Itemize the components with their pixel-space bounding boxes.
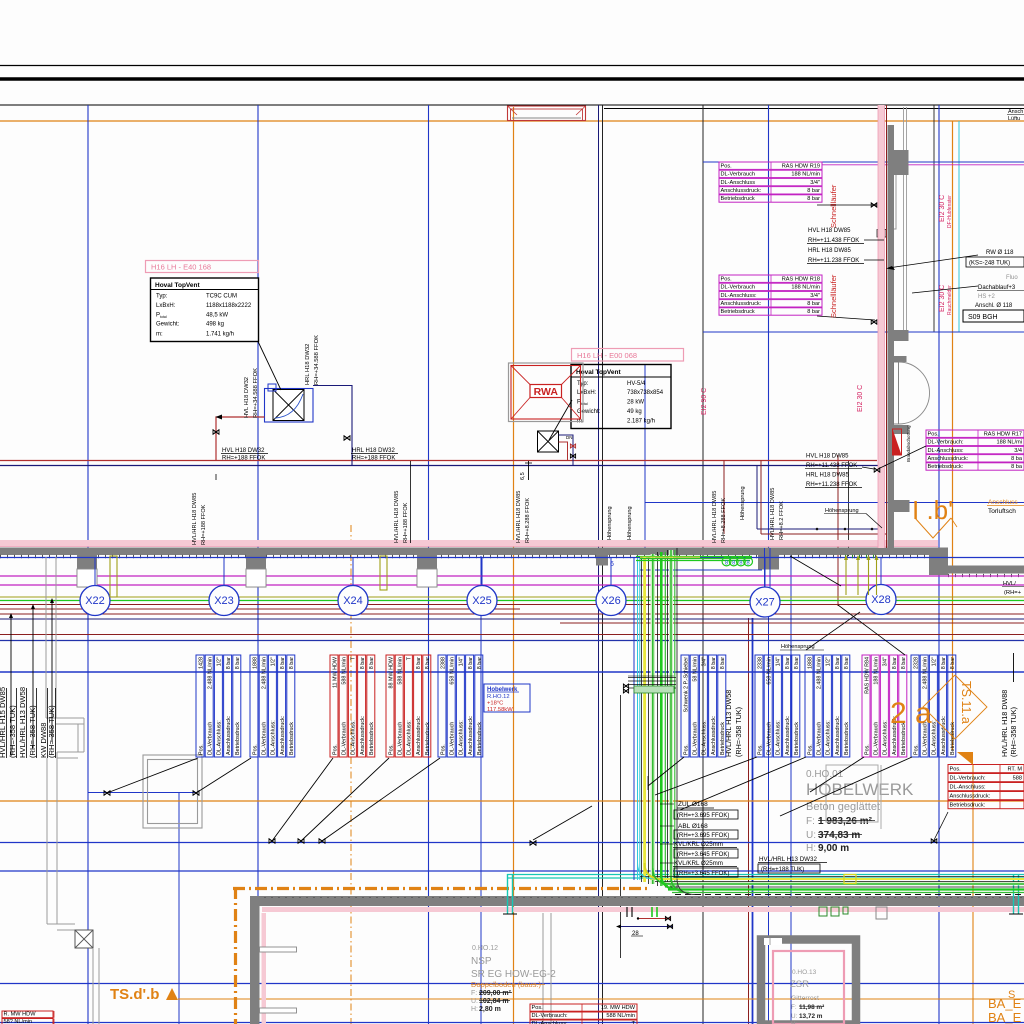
svg-text:Ansch: Ansch — [1008, 109, 1023, 115]
svg-text:8 bar: 8 bar — [226, 657, 232, 669]
svg-text:0.HO.12: 0.HO.12 — [472, 945, 498, 952]
svg-text:R. MW HDW: R. MW HDW — [4, 1012, 37, 1018]
svg-text:DL-Anschluss:: DL-Anschluss: — [950, 785, 987, 791]
svg-text:Höhensprung: Höhensprung — [781, 644, 815, 650]
svg-text:8 ba: 8 ba — [1011, 464, 1023, 470]
svg-text:+18°C: +18°C — [487, 701, 503, 707]
svg-text:DL-Verbrauch: DL-Verbrauch — [208, 722, 214, 755]
svg-text:R.HO.12: R.HO.12 — [487, 694, 510, 700]
svg-text:F:: F: — [806, 816, 815, 827]
svg-text:Höhensprung: Höhensprung — [740, 486, 746, 520]
svg-text:188 NL/min: 188 NL/min — [874, 657, 880, 685]
svg-text:NSP: NSP — [471, 956, 492, 967]
svg-text:RH=+11.238 FFOK: RH=+11.238 FFOK — [808, 258, 859, 264]
svg-text:58? NL/min: 58? NL/min — [4, 1019, 33, 1024]
svg-text:(RH=+3.695 FFOK): (RH=+3.695 FFOK) — [677, 813, 729, 819]
svg-text:188 NL/mi: 188 NL/mi — [997, 440, 1023, 446]
svg-text:HRL H18 DW85: HRL H18 DW85 — [808, 248, 851, 254]
svg-text:HVL/HRL H18 DW85: HVL/HRL H18 DW85 — [394, 491, 400, 543]
svg-text:88 MW HDW: 88 MW HDW — [388, 656, 394, 688]
svg-text:11,98 m²: 11,98 m² — [799, 1004, 824, 1011]
svg-text:HS +2: HS +2 — [978, 294, 996, 300]
svg-text:2338: 2338 — [757, 657, 763, 669]
svg-text:RH=+11.238 FFOK: RH=+11.238 FFOK — [806, 482, 857, 488]
svg-text:RH=+188 FFOK: RH=+188 FFOK — [222, 456, 265, 462]
svg-text:58 NL/min: 58 NL/min — [693, 657, 699, 682]
svg-text:RH=+34.588 FFOK: RH=+34.588 FFOK — [253, 368, 259, 418]
svg-text:1428: 1428 — [198, 657, 204, 669]
svg-text:Hoval TopVent: Hoval TopVent — [155, 282, 200, 289]
svg-text:HVL/HRL H18 DW85: HVL/HRL H18 DW85 — [712, 491, 718, 543]
svg-text:Betriebsdruck: Betriebsdruck — [721, 309, 755, 315]
svg-text:13,72 m: 13,72 m — [799, 1013, 823, 1020]
svg-text:EI2 90 C: EI2 90 C — [701, 388, 708, 415]
svg-text:BA_E: BA_E — [988, 1010, 1022, 1024]
svg-text:HRL H18 DW85: HRL H18 DW85 — [806, 473, 849, 479]
svg-text:9,00 m: 9,00 m — [818, 843, 849, 854]
svg-text:TS.11.a: TS.11.a — [959, 681, 973, 724]
svg-text:Pos.: Pos. — [252, 744, 258, 755]
svg-text:188 NL/min: 188 NL/min — [791, 285, 820, 291]
svg-text:8 ba: 8 ba — [1011, 456, 1023, 462]
svg-text:588 NL/min: 588 NL/min — [398, 657, 404, 685]
svg-text:Betriebsdruck: Betriebsdruck — [844, 722, 850, 755]
svg-text:S09 BGH: S09 BGH — [968, 314, 998, 321]
svg-text:Beton geglättet: Beton geglättet — [806, 801, 880, 813]
svg-text:0.HO.01: 0.HO.01 — [806, 769, 844, 780]
svg-text:Pos.: Pos. — [721, 163, 733, 169]
svg-text:RWA: RWA — [534, 386, 559, 398]
svg-text:HVL/HRL H13 DW32: HVL/HRL H13 DW32 — [759, 856, 817, 863]
svg-text:LxBxH:: LxBxH: — [156, 303, 176, 309]
svg-text:TC9C CUM: TC9C CUM — [206, 294, 237, 300]
svg-text:DL-Verbrauch: DL-Verbrauch — [342, 722, 348, 755]
svg-text:I .b': I .b' — [912, 495, 953, 525]
svg-text:Anschlussdruck:: Anschlussdruck: — [785, 716, 791, 755]
svg-text:DL-Verbrauch:: DL-Verbrauch: — [532, 1013, 569, 1019]
svg-text:Anschlussdruck:: Anschlussdruck: — [226, 716, 232, 755]
svg-text:2328: 2328 — [913, 657, 919, 669]
svg-text:ABL Ø168: ABL Ø168 — [678, 823, 708, 830]
svg-text:Pos.: Pos. — [864, 744, 870, 755]
svg-text:DF-Hubfenster: DF-Hubfenster — [947, 195, 953, 228]
svg-text:8 bar: 8 bar — [711, 657, 717, 669]
svg-text:658 NL/min: 658 NL/min — [450, 657, 456, 685]
svg-text:KVL/KRL Ø25mm: KVL/KRL Ø25mm — [674, 860, 723, 867]
svg-text:8 bar: 8 bar — [280, 657, 286, 669]
svg-text:Anschlussdruck:: Anschlussdruck: — [721, 301, 762, 307]
svg-text:(RH=-358 TUK): (RH=-358 TUK) — [47, 705, 56, 758]
svg-text:19. MW HDW: 19. MW HDW — [601, 1005, 636, 1011]
svg-text:Anschl. Ø 118: Anschl. Ø 118 — [975, 303, 1013, 309]
svg-text:2,80 m: 2,80 m — [479, 1006, 501, 1013]
svg-text:Betriebsdruck: Betriebsdruck — [369, 722, 375, 755]
svg-text:DL-Anschluss:: DL-Anschluss: — [407, 720, 413, 755]
svg-text:Anschlussdruck:: Anschlussdruck: — [950, 794, 991, 800]
svg-text:Betriebsdruck: Betriebsdruck — [721, 196, 755, 202]
svg-text:S: S — [1008, 989, 1015, 1001]
svg-text:8 bar: 8 bar — [835, 657, 841, 669]
svg-text:U:: U: — [806, 830, 816, 841]
svg-text:658 NL/min: 658 NL/min — [767, 657, 773, 685]
svg-text:(RH=+3.645 FFOK): (RH=+3.645 FFOK) — [677, 852, 729, 858]
svg-text:X27: X27 — [755, 597, 775, 609]
svg-text:2388: 2388 — [440, 657, 446, 669]
svg-text:2.488 NL/min: 2.488 NL/min — [262, 657, 268, 689]
svg-text:(RH=+188 TUK): (RH=+188 TUK) — [761, 867, 804, 873]
svg-text:HRL H18 DW32: HRL H18 DW32 — [305, 344, 311, 385]
svg-text:KVL/KRL Ø25mm: KVL/KRL Ø25mm — [674, 841, 723, 848]
svg-text:(RH=+: (RH=+ — [1004, 590, 1022, 596]
svg-text:8 bar: 8 bar — [720, 657, 726, 669]
svg-text:DL-Verbrauch: DL-Verbrauch — [817, 722, 823, 755]
svg-text:RH=+34.588 FFOK: RH=+34.588 FFOK — [314, 335, 320, 385]
svg-text:Lüftu: Lüftu — [1008, 116, 1020, 122]
svg-text:X23: X23 — [214, 595, 234, 607]
svg-text:8 bar: 8 bar — [289, 657, 295, 669]
svg-text:RW Ø 118: RW Ø 118 — [986, 250, 1014, 256]
svg-text:X24: X24 — [343, 595, 363, 607]
svg-text:DL-Anschluss:: DL-Anschluss: — [351, 720, 357, 755]
svg-text:588 NL/min: 588 NL/min — [606, 1013, 635, 1019]
svg-text:HVL/HRL H13 DW58: HVL/HRL H13 DW58 — [18, 687, 27, 758]
svg-text:HVL/HRL H18 DW88: HVL/HRL H18 DW88 — [1000, 690, 1009, 757]
svg-text:Pos.: Pos. — [532, 1005, 544, 1011]
svg-text:8 bar: 8 bar — [360, 657, 366, 669]
svg-text:RAS HDW R18: RAS HDW R18 — [782, 276, 820, 282]
svg-text:HV-5/4: HV-5/4 — [627, 381, 646, 387]
svg-text:Schwenk 2 P.-Schieber: Schwenk 2 P.-Schieber — [683, 657, 689, 713]
svg-text:Pos.: Pos. — [683, 744, 689, 755]
svg-text:H16 LH - E00 068: H16 LH - E00 068 — [577, 351, 637, 360]
svg-text:3/4: 3/4 — [1014, 448, 1022, 454]
svg-text:6: 6 — [610, 561, 614, 568]
svg-text:28 kW: 28 kW — [627, 400, 644, 406]
svg-text:DL-Verbrauch:: DL-Verbrauch: — [928, 440, 965, 446]
svg-text:1888: 1888 — [807, 657, 813, 669]
svg-text:DL-Anschluss:: DL-Anschluss: — [459, 720, 465, 755]
svg-text:Anschlussdruck:: Anschlussdruck: — [360, 716, 366, 755]
svg-text:HVL/HRL H18 DW85: HVL/HRL H18 DW85 — [192, 493, 198, 545]
svg-text:Anschlussdruck:: Anschlussdruck: — [941, 716, 947, 755]
svg-text:8 bar: 8 bar — [941, 657, 947, 669]
svg-text:DL-Anschluss:: DL-Anschluss: — [217, 720, 223, 755]
svg-text:Höhensprung: Höhensprung — [825, 508, 859, 514]
svg-text:(RH=+3.695 FFOK): (RH=+3.695 FFOK) — [677, 833, 729, 839]
svg-text:Schnellläufer: Schnellläufer — [829, 274, 838, 318]
svg-text:DL-Verbrauch: DL-Verbrauch — [721, 285, 756, 291]
svg-text:HVL H18 DW85: HVL H18 DW85 — [806, 454, 849, 460]
svg-text:8 bar: 8 bar — [807, 196, 820, 202]
svg-text:Betriebsdruck:: Betriebsdruck: — [928, 464, 964, 470]
svg-text:RH=+188 FFOK: RH=+188 FFOK — [403, 502, 409, 543]
svg-text:Pos.: Pos. — [440, 744, 446, 755]
svg-text:(RH=-358 TUK): (RH=-358 TUK) — [28, 705, 37, 758]
svg-text:TS.d'.b: TS.d'.b — [110, 986, 159, 1003]
svg-text:Pos.: Pos. — [757, 744, 763, 755]
svg-text:1888: 1888 — [252, 657, 258, 669]
svg-text:(RH=-358 TUK): (RH=-358 TUK) — [1009, 707, 1018, 757]
svg-text:8 bar: 8 bar — [425, 657, 431, 669]
svg-text:Pos.: Pos. — [950, 767, 962, 773]
svg-text:total: total — [160, 315, 167, 319]
svg-text:6,5: 6,5 — [520, 472, 526, 480]
svg-text:(RH=-358 TUK): (RH=-358 TUK) — [8, 705, 17, 758]
svg-text:X28: X28 — [871, 594, 891, 606]
svg-text:Fluo: Fluo — [1006, 275, 1018, 281]
svg-text:DL-Verbrauch:: DL-Verbrauch: — [950, 776, 987, 782]
svg-text:DL-Anschluss:: DL-Anschluss: — [776, 720, 782, 755]
svg-text:DL-Verbrauch: DL-Verbrauch — [874, 722, 880, 755]
svg-text:498 kg: 498 kg — [206, 322, 224, 328]
svg-text:RH=+8.2 FFOK: RH=+8.2 FFOK — [779, 501, 785, 540]
svg-text:8 bar: 8 bar — [477, 657, 483, 669]
svg-text:2 a: 2 a — [890, 697, 932, 730]
svg-text:2.488 NL/min: 2.488 NL/min — [208, 657, 214, 689]
svg-text:588: 588 — [1013, 776, 1022, 782]
svg-text:DL-Verbrauch: DL-Verbrauch — [262, 722, 268, 755]
svg-text:DL-Verbrauch: DL-Verbrauch — [450, 722, 456, 755]
svg-text:HVL/HRL H18 DW85: HVL/HRL H18 DW85 — [516, 491, 522, 543]
svg-text:F:: F: — [791, 1004, 797, 1011]
svg-text:Gewicht:: Gewicht: — [156, 322, 180, 328]
svg-text:8 bar: 8 bar — [468, 657, 474, 669]
svg-text:3/4": 3/4" — [810, 180, 820, 186]
svg-text:RAS HDW R17: RAS HDW R17 — [984, 431, 1022, 437]
svg-text:8 bar: 8 bar — [901, 657, 907, 669]
svg-text:DN: DN — [566, 435, 573, 440]
svg-text:Anschlussdruck:: Anschlussdruck: — [835, 716, 841, 755]
svg-text:HRL H18 DW32: HRL H18 DW32 — [352, 448, 395, 454]
svg-text:H:: H: — [471, 1006, 478, 1013]
svg-text:Pos.: Pos. — [198, 744, 204, 755]
svg-text:2.488 NL/min: 2.488 NL/min — [923, 657, 929, 689]
svg-text:8 bar: 8 bar — [794, 657, 800, 669]
svg-text:8 bar: 8 bar — [369, 657, 375, 669]
svg-text:1/4": 1/4" — [459, 657, 465, 666]
svg-text:Betriebsdruck: Betriebsdruck — [477, 722, 483, 755]
svg-text:RAS HDW R84: RAS HDW R84 — [864, 657, 870, 694]
svg-text:HVL H18 DW32: HVL H18 DW32 — [244, 377, 250, 418]
svg-text:HVL/: HVL/ — [1003, 581, 1016, 587]
svg-text:Betriebsdruck: Betriebsdruck — [235, 722, 241, 755]
svg-text:DL-Anschluss:: DL-Anschluss: — [883, 720, 889, 755]
svg-text:2.187 kg/h: 2.187 kg/h — [627, 419, 655, 425]
svg-text:X22: X22 — [85, 595, 105, 607]
svg-text:8 bar: 8 bar — [950, 657, 956, 669]
svg-text:RH=+188 FFOK: RH=+188 FFOK — [201, 504, 207, 545]
svg-text:8 bar: 8 bar — [807, 301, 820, 307]
svg-text:(RH=-358 TUK): (RH=-358 TUK) — [734, 707, 743, 757]
svg-text:Anschlussdruck:: Anschlussdruck: — [928, 456, 969, 462]
svg-text:U:: U: — [471, 998, 478, 1005]
svg-text:374,83 m: 374,83 m — [818, 830, 860, 841]
svg-text:X25: X25 — [472, 595, 492, 607]
svg-text:Pos.: Pos. — [721, 276, 733, 282]
svg-text:Anschlussdruck:: Anschlussdruck: — [280, 716, 286, 755]
svg-text:1/2": 1/2" — [271, 657, 277, 666]
svg-text:DL-Anschluss: DL-Anschluss — [721, 180, 756, 186]
svg-text:RT. M: RT. M — [1007, 767, 1022, 773]
svg-text:1/2": 1/2" — [826, 657, 832, 666]
svg-text:738x738x854: 738x738x854 — [627, 390, 664, 396]
svg-text:m:: m: — [156, 332, 163, 338]
svg-text:209,00 m²: 209,00 m² — [479, 990, 512, 997]
svg-text:RH=+188 FFOK: RH=+188 FFOK — [352, 456, 395, 462]
svg-text:48,5 kW: 48,5 kW — [206, 313, 228, 319]
svg-text:DL-Anschluss:: DL-Anschluss: — [932, 720, 938, 755]
svg-text:1/2": 1/2" — [217, 657, 223, 666]
svg-text:Schnellläufer: Schnellläufer — [829, 184, 838, 228]
svg-text:EI2 30 C: EI2 30 C — [857, 385, 864, 412]
svg-text:Betriebsdruck: Betriebsdruck — [289, 722, 295, 755]
svg-text:3/4": 3/4" — [810, 293, 820, 299]
svg-text:RH=+8.288 FFOK: RH=+8.288 FFOK — [525, 498, 531, 543]
svg-text:2.488 NL/min: 2.488 NL/min — [817, 657, 823, 689]
svg-text:HVL H18 DW32: HVL H18 DW32 — [222, 448, 265, 454]
svg-text:102,84 m: 102,84 m — [479, 998, 509, 1005]
svg-text:0.HO.13: 0.HO.13 — [792, 969, 817, 976]
svg-text:ZSR: ZSR — [790, 979, 809, 990]
svg-text:DL-Verbrauch: DL-Verbrauch — [693, 722, 699, 755]
svg-text:HVL/HRL H15 DW85: HVL/HRL H15 DW85 — [0, 687, 7, 758]
svg-text:U:: U: — [791, 1013, 798, 1020]
svg-text:HVL/HRL H18 DW85: HVL/HRL H18 DW85 — [770, 488, 776, 540]
svg-text:3/4": 3/4" — [883, 657, 889, 666]
svg-text:588 NL/min: 588 NL/min — [342, 657, 348, 685]
svg-text:1/2": 1/2" — [932, 657, 938, 666]
svg-text:49 kg: 49 kg — [627, 409, 642, 415]
svg-text:total: total — [581, 402, 588, 406]
svg-text:1188x1188x2222: 1188x1188x2222 — [206, 303, 252, 309]
svg-text:1.741 kg/h: 1.741 kg/h — [206, 332, 234, 338]
svg-text:Betriebsdruck: Betriebsdruck — [425, 722, 431, 755]
svg-text:Gitterrost: Gitterrost — [791, 995, 819, 1002]
svg-text:Höhensprung: Höhensprung — [607, 506, 613, 540]
svg-text:H:: H: — [806, 843, 816, 854]
svg-text:8 bar: 8 bar — [892, 657, 898, 669]
svg-text:8 bar: 8 bar — [235, 657, 241, 669]
svg-text:Typ:: Typ: — [156, 294, 168, 300]
svg-text:DL-Anschluss:: DL-Anschluss: — [928, 448, 965, 454]
svg-text:8 bar: 8 bar — [807, 188, 820, 194]
svg-text:Anschlussdruck:: Anschlussdruck: — [721, 188, 762, 194]
svg-text:DL-Anschluss:: DL-Anschluss: — [702, 720, 708, 755]
svg-text:Pos.: Pos. — [332, 744, 338, 755]
svg-text:EI2 30 C: EI2 30 C — [939, 195, 946, 222]
svg-text:Höhensprung: Höhensprung — [627, 506, 633, 540]
svg-text:188 NL/min: 188 NL/min — [791, 172, 820, 178]
svg-text:(KS=-248 TUK): (KS=-248 TUK) — [969, 261, 1010, 267]
svg-text:Pos.: Pos. — [807, 744, 813, 755]
svg-text:RAS HDW R19: RAS HDW R19 — [782, 163, 820, 169]
svg-text:Pos.: Pos. — [928, 431, 940, 437]
svg-text:X26: X26 — [601, 595, 621, 607]
svg-text:DL-Anschluss:: DL-Anschluss: — [271, 720, 277, 755]
svg-text:DL-Verbrauch: DL-Verbrauch — [721, 172, 756, 178]
svg-text:DL-Anschluss:: DL-Anschluss: — [826, 720, 832, 755]
svg-text:8 bar: 8 bar — [844, 657, 850, 669]
svg-text:DL-Verbrauch: DL-Verbrauch — [398, 722, 404, 755]
svg-text:EI2 30 C: EI2 30 C — [939, 285, 946, 312]
svg-text:8 bar: 8 bar — [785, 657, 791, 669]
svg-text:Betriebsdruck: Betriebsdruck — [794, 722, 800, 755]
svg-text:Anschlussdruck:: Anschlussdruck: — [416, 716, 422, 755]
svg-text:11 MW HDW: 11 MW HDW — [332, 656, 338, 688]
svg-text:RH=+8.288 FFOK: RH=+8.288 FFOK — [721, 498, 727, 543]
svg-text:SR EG HOW-EG-2: SR EG HOW-EG-2 — [471, 969, 556, 980]
svg-text:H16 LH - E40 168: H16 LH - E40 168 — [151, 263, 211, 272]
svg-text:(RH=+3.645 FFOK): (RH=+3.645 FFOK) — [677, 871, 729, 877]
svg-text:DL-Anschluss:: DL-Anschluss: — [721, 293, 758, 299]
svg-text:8 bar: 8 bar — [416, 657, 422, 669]
svg-text:Anschlussdruck:: Anschlussdruck: — [711, 716, 717, 755]
svg-text:Pos.: Pos. — [913, 744, 919, 755]
svg-text:BA_E: BA_E — [988, 996, 1022, 1011]
svg-text:1/4": 1/4" — [776, 657, 782, 666]
svg-text:Anschlussdruck:: Anschlussdruck: — [468, 716, 474, 755]
svg-text:HVL/HRL H13 DW58: HVL/HRL H13 DW58 — [724, 690, 733, 757]
svg-text:RH=+11.438 FFOK: RH=+11.438 FFOK — [808, 238, 859, 244]
svg-text:Brandabschottung: Brandabschottung — [906, 425, 911, 462]
svg-text:3/4": 3/4" — [702, 657, 708, 666]
svg-text:Betriebsdruck:: Betriebsdruck: — [950, 803, 986, 809]
svg-text:Pos.: Pos. — [388, 744, 394, 755]
svg-text:8 bar: 8 bar — [807, 309, 820, 315]
svg-text:Dachablauf+3: Dachablauf+3 — [978, 285, 1016, 291]
svg-text:DL-Verbrauch: DL-Verbrauch — [767, 722, 773, 755]
svg-text:F:: F: — [471, 990, 477, 997]
svg-text:Torluftsch: Torluftsch — [988, 508, 1016, 515]
svg-text:Anschluss: Anschluss — [988, 499, 1018, 506]
svg-text:117.58kW: 117.58kW — [487, 707, 513, 713]
svg-text:HOBELWERK: HOBELWERK — [806, 780, 914, 799]
